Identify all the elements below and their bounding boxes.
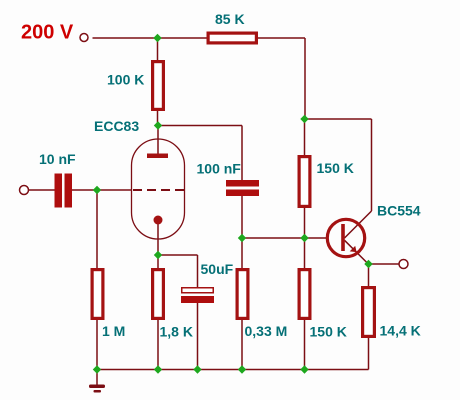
svg-text:200 V: 200 V bbox=[21, 22, 74, 44]
svg-text:100 nF: 100 nF bbox=[197, 161, 242, 177]
svg-text:50uF: 50uF bbox=[201, 261, 234, 277]
svg-text:ECC83: ECC83 bbox=[94, 118, 139, 134]
svg-text:10 nF: 10 nF bbox=[39, 151, 76, 167]
svg-text:1,8 K: 1,8 K bbox=[160, 324, 193, 340]
svg-text:0,33 M: 0,33 M bbox=[245, 323, 288, 339]
svg-text:85 K: 85 K bbox=[215, 11, 245, 27]
svg-text:14,4 K: 14,4 K bbox=[380, 323, 421, 339]
svg-text:100 K: 100 K bbox=[107, 72, 144, 88]
svg-text:1 M: 1 M bbox=[102, 323, 125, 339]
svg-text:150 K: 150 K bbox=[310, 324, 347, 340]
svg-text:150 K: 150 K bbox=[317, 160, 354, 176]
svg-text:BC554: BC554 bbox=[377, 203, 421, 219]
